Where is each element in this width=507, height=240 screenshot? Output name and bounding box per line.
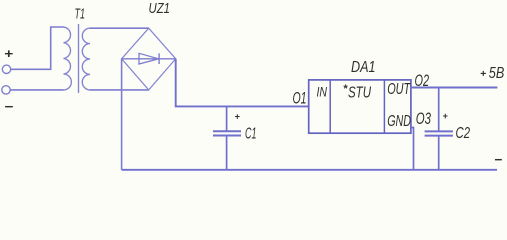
regulator DA1 box — [309, 80, 411, 133]
DA1 divider 2 — [383, 80, 385, 133]
svg-text:DA1: DA1 — [351, 59, 376, 76]
svg-text:O3: O3 — [416, 109, 432, 128]
svg-text:+: + — [480, 68, 486, 80]
transformer T1 secondary winding — [82, 28, 90, 90]
svg-text:O1: O1 — [293, 89, 307, 108]
input terminal X2 (lower circle) — [2, 86, 10, 94]
wire secondary bottom to bridge bottom corner — [90, 89, 149, 91]
wire DA1 GND pin down to negative rail — [411, 128, 414, 170]
capacitor C1 plates — [213, 130, 241, 132]
input terminal X1 (upper circle) — [2, 65, 10, 73]
wire secondary top to bridge top corner — [90, 27, 149, 29]
svg-text:T1: T1 — [75, 7, 86, 23]
svg-text:−: − — [4, 99, 13, 114]
svg-text:OUT: OUT — [387, 81, 411, 98]
DA1 divider 1 — [329, 80, 331, 133]
svg-text:+: + — [4, 46, 13, 61]
bridge diode cathode bar — [158, 53, 160, 64]
wire DA1 OUT to +5V output — [411, 87, 498, 89]
svg-text:O2: O2 — [415, 71, 430, 90]
wire bridge left corner down to negative rail — [121, 59, 123, 170]
svg-text:GND: GND — [387, 113, 411, 130]
svg-text:+: + — [443, 111, 449, 121]
bridge diode symbol: anode-cathode line — [122, 58, 176, 60]
transformer core — [78, 24, 80, 93]
svg-text:IN: IN — [317, 84, 328, 100]
capacitor C2 plates — [425, 130, 453, 132]
wire lower terminal to transformer primary bottom — [10, 89, 63, 91]
svg-text:UZ1: UZ1 — [149, 1, 171, 17]
transformer T1 primary winding — [64, 27, 72, 90]
wire upper terminal to transformer primary top — [11, 27, 64, 69]
svg-text:5В: 5В — [489, 65, 505, 82]
svg-text:STU: STU — [348, 85, 371, 102]
svg-text:C1: C1 — [245, 126, 257, 143]
svg-text:+: + — [235, 112, 241, 122]
capacitor C1 lower lead — [226, 136, 228, 170]
svg-text:−: − — [494, 152, 502, 167]
capacitor C1 upper lead — [226, 106, 228, 131]
capacitor C2 lower lead — [438, 136, 440, 170]
wire bridge right corner down then right: positive rail to DA1 IN — [176, 59, 309, 107]
capacitor C2 upper lead — [438, 88, 440, 132]
negative rail — [122, 169, 497, 171]
bridge rectifier UZ1 diamond — [122, 28, 176, 90]
bridge diode triangle — [139, 53, 159, 64]
svg-text:C2: C2 — [456, 125, 471, 142]
